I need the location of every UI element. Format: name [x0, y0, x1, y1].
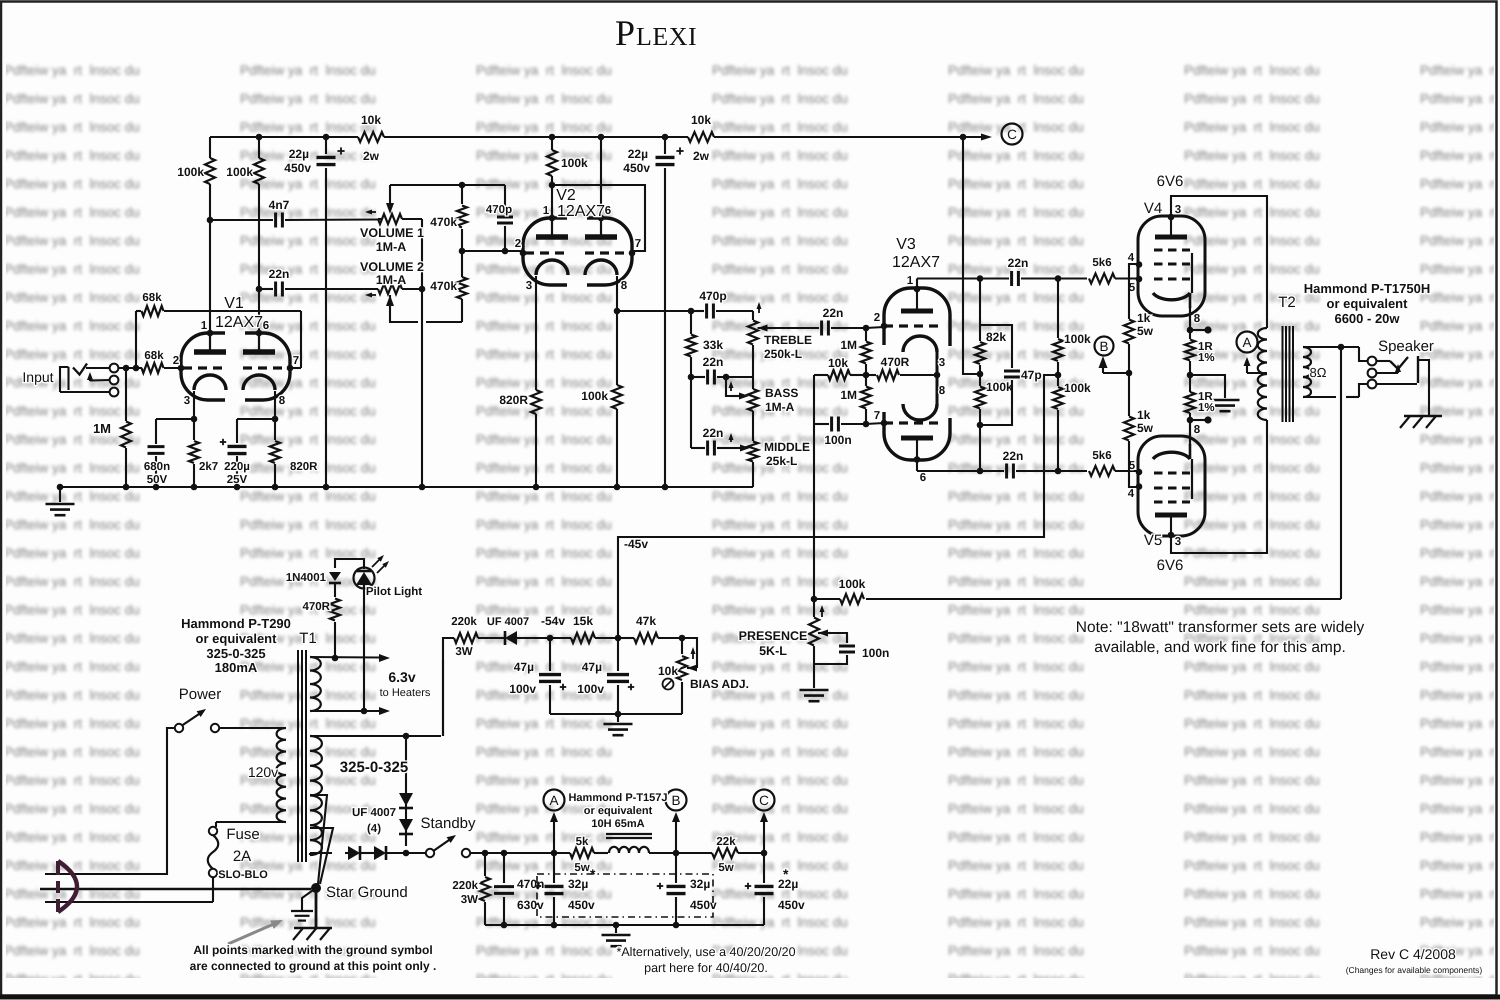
svg-text:or equivalent: or equivalent	[196, 631, 278, 646]
svg-text:3: 3	[1175, 204, 1181, 216]
svg-text:7: 7	[874, 410, 880, 422]
svg-text:Hammond P-T1750H: Hammond P-T1750H	[1304, 281, 1430, 296]
svg-text:68k: 68k	[142, 292, 162, 304]
svg-text:8: 8	[1194, 424, 1201, 436]
svg-text:BASS: BASS	[765, 386, 798, 400]
svg-text:B: B	[1099, 339, 1108, 354]
svg-text:450v: 450v	[284, 161, 311, 175]
svg-text:Note: "18watt" transformer set: Note: "18watt" transformer sets are wide…	[1076, 619, 1365, 636]
svg-text:V4: V4	[1144, 200, 1162, 217]
svg-text:2: 2	[874, 312, 880, 324]
svg-text:3W: 3W	[455, 646, 472, 658]
svg-text:-54v: -54v	[541, 614, 565, 628]
svg-text:8: 8	[621, 280, 628, 292]
svg-text:Fuse: Fuse	[226, 826, 259, 843]
svg-text:100k: 100k	[1064, 332, 1091, 346]
svg-text:2: 2	[173, 355, 179, 367]
svg-text:10k: 10k	[691, 113, 711, 127]
svg-text:2w: 2w	[363, 149, 380, 163]
svg-text:100k: 100k	[581, 389, 608, 403]
svg-text:47k: 47k	[636, 614, 656, 628]
svg-text:100k: 100k	[226, 165, 253, 179]
svg-text:5w: 5w	[574, 862, 589, 874]
svg-text:2A: 2A	[233, 848, 251, 865]
svg-text:8: 8	[1194, 313, 1201, 325]
svg-text:1%: 1%	[1198, 352, 1215, 364]
svg-text:120v: 120v	[248, 764, 278, 780]
svg-text:V5: V5	[1144, 532, 1162, 549]
svg-text:to Heaters: to Heaters	[380, 687, 431, 699]
svg-text:(Changes for available compone: (Changes for available components)	[1346, 965, 1483, 975]
svg-text:180mA: 180mA	[215, 660, 258, 675]
svg-text:100k: 100k	[561, 156, 588, 170]
svg-text:450v: 450v	[623, 161, 650, 175]
svg-text:820R: 820R	[499, 393, 528, 407]
svg-text:100k: 100k	[839, 577, 866, 591]
svg-text:3: 3	[184, 395, 190, 407]
svg-text:22n: 22n	[703, 355, 724, 369]
svg-text:22µ: 22µ	[289, 147, 309, 161]
svg-text:UF 4007: UF 4007	[352, 807, 396, 819]
svg-text:100n: 100n	[862, 646, 889, 660]
svg-text:Pilot Light: Pilot Light	[366, 586, 422, 598]
svg-text:PRESENCE: PRESENCE	[739, 629, 808, 643]
svg-text:1M-A: 1M-A	[376, 273, 407, 287]
svg-text:5K-L: 5K-L	[759, 644, 787, 658]
svg-text:325-0-325: 325-0-325	[340, 759, 408, 776]
svg-text:25k-L: 25k-L	[766, 454, 797, 468]
svg-text:10k: 10k	[361, 113, 381, 127]
svg-text:part here for 40/40/20.: part here for 40/40/20.	[644, 961, 768, 975]
svg-text:5w: 5w	[718, 862, 733, 874]
svg-text:V1: V1	[224, 295, 244, 312]
svg-text:22n: 22n	[1003, 449, 1024, 463]
svg-text:6: 6	[920, 472, 926, 484]
svg-text:1: 1	[543, 205, 550, 217]
svg-text:470R: 470R	[881, 355, 910, 369]
svg-text:BIAS ADJ.: BIAS ADJ.	[690, 677, 749, 691]
svg-text:VOLUME 1: VOLUME 1	[360, 226, 424, 240]
svg-text:6V6: 6V6	[1157, 557, 1184, 574]
svg-text:220k: 220k	[451, 616, 477, 628]
svg-text:8: 8	[939, 385, 946, 397]
svg-text:VOLUME 2: VOLUME 2	[360, 260, 424, 274]
svg-text:A: A	[1242, 335, 1251, 350]
svg-text:47µ: 47µ	[582, 660, 602, 674]
svg-text:15k: 15k	[573, 614, 593, 628]
svg-text:or equivalent: or equivalent	[1327, 296, 1409, 311]
svg-text:or equivalent: or equivalent	[584, 805, 653, 817]
svg-text:3: 3	[1175, 536, 1181, 548]
svg-text:22n: 22n	[823, 306, 844, 320]
svg-text:22n: 22n	[1008, 256, 1029, 270]
svg-text:*Alternatively, use a 40/20/20: *Alternatively, use a 40/20/20/20	[616, 945, 795, 959]
svg-text:630v: 630v	[517, 898, 544, 912]
svg-text:4: 4	[1128, 252, 1135, 264]
svg-text:P: P	[615, 13, 635, 53]
svg-text:8: 8	[279, 395, 286, 407]
svg-text:12AX7: 12AX7	[215, 314, 263, 331]
svg-text:1k: 1k	[1137, 311, 1151, 325]
svg-text:100k: 100k	[986, 380, 1013, 394]
svg-text:TREBLE: TREBLE	[764, 333, 812, 347]
svg-text:470R: 470R	[303, 601, 331, 613]
svg-text:7: 7	[635, 238, 641, 250]
svg-text:22n: 22n	[269, 267, 290, 281]
svg-text:Star Ground: Star Ground	[326, 884, 408, 901]
svg-text:470p: 470p	[486, 204, 512, 216]
svg-text:T2: T2	[1278, 294, 1296, 311]
svg-text:3: 3	[939, 357, 945, 369]
svg-text:47p: 47p	[1021, 368, 1042, 382]
svg-text:4n7: 4n7	[269, 198, 290, 212]
svg-text:5k6: 5k6	[1092, 257, 1111, 269]
svg-text:32µ: 32µ	[690, 877, 710, 891]
svg-text:available, and work fine for t: available, and work fine for this amp.	[1094, 639, 1346, 656]
svg-text:7: 7	[293, 355, 299, 367]
svg-text:820R: 820R	[290, 461, 318, 473]
svg-text:5w: 5w	[1137, 421, 1154, 435]
svg-text:450v: 450v	[568, 898, 595, 912]
svg-text:100v: 100v	[509, 682, 536, 696]
svg-text:A: A	[549, 793, 558, 808]
svg-text:V3: V3	[896, 236, 916, 253]
svg-text:6600 - 20w: 6600 - 20w	[1334, 311, 1400, 326]
svg-text:All points marked with the gro: All points marked with the ground symbol	[193, 943, 432, 957]
svg-text:Power: Power	[179, 686, 222, 703]
svg-text:470n: 470n	[517, 877, 544, 891]
svg-text:Hammond P-T290: Hammond P-T290	[181, 616, 291, 631]
svg-text:100k: 100k	[1064, 381, 1091, 395]
svg-text:4: 4	[1128, 488, 1135, 500]
svg-text:MIDDLE: MIDDLE	[764, 440, 810, 454]
svg-text:450v: 450v	[778, 898, 805, 912]
svg-text:32µ: 32µ	[568, 877, 588, 891]
svg-text:LEXI: LEXI	[636, 22, 697, 51]
svg-text:1M: 1M	[840, 338, 857, 352]
svg-text:6V6: 6V6	[1157, 173, 1184, 190]
svg-text:1: 1	[907, 275, 914, 287]
svg-text:-45v: -45v	[624, 537, 648, 551]
svg-text:3: 3	[526, 280, 532, 292]
svg-text:12AX7: 12AX7	[892, 254, 940, 271]
svg-text:10H 65mA: 10H 65mA	[591, 818, 644, 830]
svg-text:SLO-BLO: SLO-BLO	[218, 869, 268, 881]
svg-text:10k: 10k	[828, 356, 848, 370]
svg-text:100n: 100n	[824, 433, 851, 447]
svg-text:UF 4007: UF 4007	[487, 616, 529, 628]
svg-text:220µ: 220µ	[224, 461, 250, 473]
svg-text:470k: 470k	[430, 215, 457, 229]
svg-text:1M-A: 1M-A	[765, 400, 795, 414]
svg-text:10k: 10k	[658, 664, 678, 678]
svg-text:are connected to ground at thi: are connected to ground at this point on…	[190, 959, 437, 973]
svg-text:1N4001: 1N4001	[286, 572, 327, 584]
svg-text:Input: Input	[22, 369, 53, 385]
svg-text:C: C	[1007, 127, 1017, 142]
svg-text:47µ: 47µ	[514, 660, 534, 674]
svg-text:68k: 68k	[144, 350, 164, 362]
svg-text:6: 6	[263, 320, 269, 332]
svg-text:6: 6	[605, 205, 611, 217]
svg-text:470p: 470p	[699, 289, 726, 303]
svg-text:12AX7: 12AX7	[557, 203, 605, 220]
svg-text:T1: T1	[299, 630, 317, 647]
svg-text:2k7: 2k7	[199, 461, 218, 473]
svg-text:6.3v: 6.3v	[388, 669, 415, 685]
svg-text:680n: 680n	[144, 461, 170, 473]
svg-text:B: B	[671, 793, 680, 808]
svg-text:3W: 3W	[461, 894, 478, 906]
svg-text:100v: 100v	[577, 682, 604, 696]
svg-text:C: C	[759, 793, 769, 808]
svg-text:(4): (4)	[367, 823, 381, 835]
svg-text:1%: 1%	[1198, 402, 1215, 414]
svg-text:22n: 22n	[703, 426, 724, 440]
svg-text:1: 1	[201, 320, 208, 332]
svg-text:325-0-325: 325-0-325	[206, 646, 265, 661]
svg-text:Hammond P-T157J: Hammond P-T157J	[568, 792, 667, 804]
svg-text:1M-A: 1M-A	[376, 240, 407, 254]
svg-text:Rev C 4/2008: Rev C 4/2008	[1370, 946, 1456, 962]
svg-text:V2: V2	[556, 187, 576, 204]
svg-text:470k: 470k	[430, 279, 457, 293]
svg-text:22µ: 22µ	[628, 147, 648, 161]
svg-text:82k: 82k	[986, 330, 1006, 344]
svg-text:5k6: 5k6	[1092, 450, 1111, 462]
svg-text:5w: 5w	[1137, 324, 1154, 338]
svg-text:5k: 5k	[576, 836, 589, 848]
svg-text:Speaker: Speaker	[1378, 338, 1434, 355]
svg-text:1M: 1M	[840, 388, 857, 402]
svg-text:33k: 33k	[703, 338, 723, 352]
svg-text:250k-L: 250k-L	[764, 347, 802, 361]
svg-text:1M: 1M	[93, 421, 111, 436]
svg-text:220k: 220k	[452, 880, 478, 892]
svg-text:Standby: Standby	[420, 815, 476, 832]
svg-text:*: *	[783, 866, 789, 882]
svg-text:2w: 2w	[693, 149, 710, 163]
svg-text:100k: 100k	[177, 165, 204, 179]
svg-text:22k: 22k	[716, 836, 736, 848]
svg-text:8Ω: 8Ω	[1310, 365, 1327, 380]
svg-text:1k: 1k	[1137, 408, 1151, 422]
svg-text:2: 2	[515, 238, 521, 250]
